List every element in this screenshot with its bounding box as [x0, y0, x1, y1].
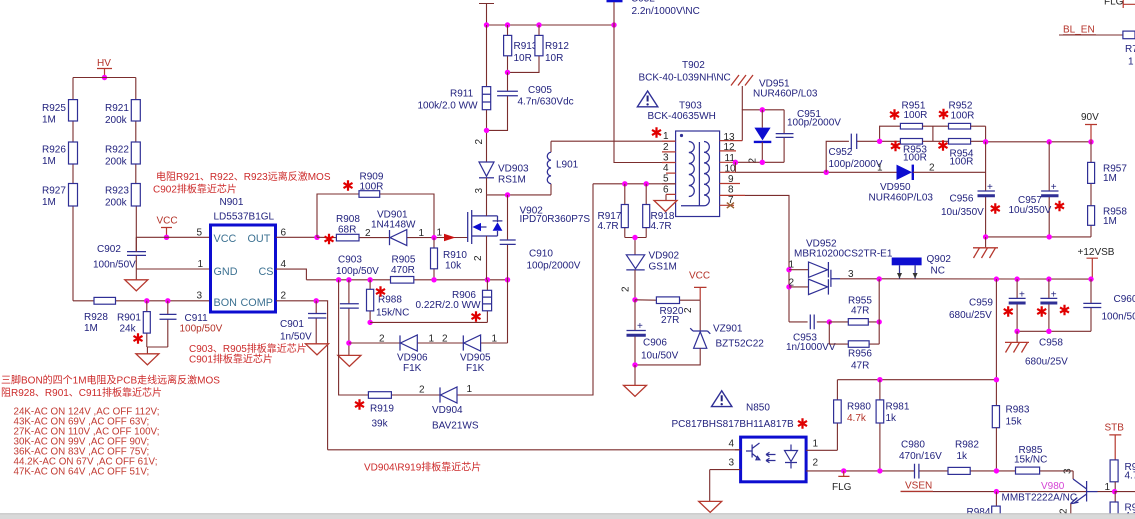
power port 90V — [1081, 112, 1099, 142]
capacitor C957 — [1009, 142, 1059, 237]
svg-text:5: 5 — [197, 228, 203, 239]
resistor R919 — [368, 392, 394, 430]
svg-text:FLG: FLG — [832, 482, 852, 493]
wire OUT pin6 — [276, 236, 317, 238]
svg-text:1M: 1M — [42, 115, 56, 126]
IC N901 LD5537B1GL — [197, 197, 287, 312]
resistor R912 — [508, 25, 570, 72]
diode VD904 — [419, 384, 479, 432]
node BON/R901 — [144, 298, 149, 303]
resistor R988 — [367, 280, 410, 323]
node rail R912 — [536, 22, 541, 27]
node R913/R912 join — [505, 70, 510, 75]
node out R955 — [877, 276, 882, 281]
diode VD952a — [789, 260, 829, 278]
wire divider right stub — [1115, 491, 1135, 493]
resistor R923 — [105, 184, 140, 209]
svg-text:100p/2000V: 100p/2000V — [829, 159, 883, 170]
svg-text:R905: R905 — [392, 255, 416, 266]
svg-text:200k: 200k — [105, 157, 128, 168]
node rail R911 — [484, 22, 489, 27]
node R911/C905 join — [484, 128, 489, 133]
capacitor C959 — [949, 279, 1026, 331]
R951/R953 left junction — [877, 126, 901, 144]
node R955/R956 right — [877, 319, 882, 324]
star R988 — [376, 286, 385, 296]
svg-text:FLG: FLG — [1104, 0, 1124, 8]
node BON/C911 — [165, 298, 170, 303]
svg-text:+: + — [1051, 290, 1057, 301]
star N850 — [798, 418, 807, 428]
svg-text:10k: 10k — [445, 261, 462, 272]
wire R901/C911 join — [147, 347, 168, 354]
svg-text:68R: 68R — [338, 225, 356, 236]
transformer left pin stubs — [662, 141, 676, 194]
svg-text:2: 2 — [683, 307, 694, 313]
svg-text:GND: GND — [214, 266, 238, 278]
svg-text:100n/50: 100n/50 — [1102, 312, 1135, 323]
node out C960 — [1088, 276, 1093, 281]
svg-text:OUT: OUT — [248, 233, 271, 245]
mosfet V902 — [468, 195, 591, 280]
wire drain junction — [487, 194, 552, 196]
node C958 bottom — [1046, 329, 1051, 334]
svg-text:1: 1 — [419, 228, 425, 239]
svg-text:T902: T902 — [682, 60, 705, 71]
wire +12V drop x996 — [995, 279, 997, 406]
svg-text:100R: 100R — [360, 182, 384, 193]
svg-text:100p/2000V: 100p/2000V — [787, 118, 841, 129]
node pin2row x996 — [994, 468, 999, 473]
svg-text:C910: C910 — [529, 249, 553, 260]
capacitor C960 — [1083, 279, 1135, 331]
svg-text:C956: C956 — [950, 194, 974, 205]
wire C906 ground stem — [634, 365, 636, 386]
capacitor C962 top cut — [607, 0, 700, 25]
svg-text:100R: 100R — [903, 153, 927, 164]
node STB divider — [1112, 489, 1117, 494]
resistor R901 — [117, 301, 150, 347]
wire C902 stem — [135, 237, 137, 279]
capacitor C956 — [941, 142, 995, 237]
svg-text:200k: 200k — [105, 115, 128, 126]
svg-text:100R: 100R — [951, 111, 975, 122]
no-connect X pin7 — [727, 203, 734, 209]
svg-text:BCK-40-L039NH\NC: BCK-40-L039NH\NC — [639, 73, 731, 84]
svg-text:COMP: COMP — [241, 297, 273, 309]
svg-text:1: 1 — [1105, 482, 1111, 493]
resistor R953 — [900, 139, 927, 164]
svg-text:BL_EN: BL_EN — [1063, 25, 1095, 36]
svg-text:1n/1000VV: 1n/1000VV — [786, 342, 836, 353]
optocoupler N850 — [741, 437, 807, 482]
node C906 bottom — [632, 362, 637, 367]
wire R908 row — [317, 236, 468, 238]
port STB — [1105, 423, 1125, 460]
wire pin5 row — [593, 183, 676, 185]
svg-text:C902排板靠近芯片: C902排板靠近芯片 — [153, 183, 237, 196]
svg-text:Q902: Q902 — [927, 254, 952, 265]
svg-text:4.7R: 4.7R — [651, 221, 672, 232]
earth above pin13 — [731, 75, 753, 110]
diode VD903 — [479, 162, 529, 195]
svg-text:3: 3 — [663, 152, 669, 163]
svg-text:100n/50V: 100n/50V — [93, 260, 136, 271]
svg-text:10R: 10R — [514, 53, 532, 64]
svg-text:BCK-40635WH: BCK-40635WH — [648, 111, 716, 122]
diode VD901 — [365, 210, 425, 246]
svg-text:10: 10 — [725, 164, 737, 175]
node VD951 bottom — [760, 160, 765, 165]
node rail R910 — [431, 277, 436, 282]
svg-text:1: 1 — [1128, 57, 1134, 68]
svg-text:BAV21WS: BAV21WS — [432, 421, 479, 432]
power port +12VSB — [1078, 247, 1115, 279]
svg-text:5: 5 — [663, 174, 669, 185]
svg-text:STB: STB — [1105, 423, 1125, 434]
svg-text:MBR10200CS2TR-E1: MBR10200CS2TR-E1 — [794, 249, 893, 260]
svg-text:GS1M: GS1M — [649, 262, 677, 273]
svg-text:1: 1 — [789, 260, 795, 271]
svg-text:2: 2 — [281, 291, 287, 302]
svg-text:200k: 200k — [105, 198, 128, 209]
wire pin13 riser — [742, 110, 784, 141]
svg-text:N850: N850 — [746, 403, 770, 414]
ground under C906 — [624, 385, 647, 396]
capacitor C902 — [93, 244, 146, 271]
node R981 bottom — [877, 468, 882, 473]
svg-text:1: 1 — [663, 131, 669, 142]
svg-text:R912: R912 — [545, 41, 569, 52]
svg-text:VD950: VD950 — [880, 182, 911, 193]
svg-text:1M: 1M — [84, 323, 98, 334]
svg-text:C905: C905 — [528, 85, 552, 96]
net label BL_EN — [1059, 25, 1123, 36]
svg-text:R919: R919 — [370, 404, 394, 415]
svg-text:6: 6 — [663, 184, 669, 195]
svg-text:1: 1 — [492, 334, 498, 345]
diode VD905 — [442, 334, 498, 375]
svg-text:2: 2 — [473, 255, 484, 261]
svg-text:BZT52C22: BZT52C22 — [716, 339, 765, 350]
svg-text:VD904: VD904 — [432, 405, 463, 416]
svg-text:R926: R926 — [42, 145, 66, 156]
svg-text:1: 1 — [437, 228, 443, 239]
svg-text:R983: R983 — [1006, 405, 1030, 416]
svg-text:90V: 90V — [1081, 112, 1099, 123]
wire caps bottom rail — [1017, 330, 1091, 332]
node pin11/pin10 link — [733, 160, 738, 165]
right pin numbers — [724, 132, 737, 206]
resistor R911 wirewound — [418, 25, 491, 162]
wire opto pin3 — [710, 470, 741, 502]
wire 90V bottom rail — [986, 236, 1091, 238]
wire CS rail — [306, 279, 507, 281]
resistor R926 — [42, 142, 78, 167]
resistor R918 — [643, 184, 675, 238]
svg-text:+: + — [987, 182, 993, 193]
wire VD906 row — [349, 280, 508, 343]
wire pin8 to VD952 — [745, 195, 789, 322]
node R918 top — [644, 181, 649, 186]
svg-text:+: + — [1051, 182, 1057, 193]
svg-text:VD902: VD902 — [649, 251, 680, 262]
resistor R913 — [504, 25, 538, 72]
resistor R7xx edge — [1123, 31, 1135, 67]
resistor R951 — [900, 101, 927, 130]
svg-text:1: 1 — [429, 334, 435, 345]
svg-text:1N4148W: 1N4148W — [371, 220, 416, 231]
node VSEN x996 — [994, 489, 999, 494]
resistor R925 — [42, 100, 78, 126]
node COMP — [314, 298, 319, 303]
port arrow 1 — [437, 228, 456, 242]
svg-text:VD906: VD906 — [397, 353, 428, 364]
svg-text:47R: 47R — [851, 306, 869, 317]
bottom window bar — [0, 514, 1135, 519]
svg-text:C906: C906 — [643, 338, 667, 349]
star R909 — [344, 180, 353, 190]
star R901 — [134, 333, 143, 343]
svg-text:1: 1 — [198, 259, 204, 270]
svg-text:39k: 39k — [372, 419, 389, 430]
zener VZ901 — [636, 300, 764, 365]
star R952 — [939, 109, 948, 119]
diode VD902 — [626, 251, 679, 300]
node VD902/R920/C906 — [632, 297, 637, 302]
star C957 — [1055, 201, 1064, 211]
node out x996 — [994, 276, 999, 281]
svg-text:2: 2 — [419, 385, 425, 396]
svg-text:1M: 1M — [42, 156, 56, 167]
left pin numbers — [663, 131, 669, 195]
node rail C903 — [346, 277, 351, 282]
svg-text:VCC: VCC — [157, 216, 178, 227]
svg-text:NUR460P/L03: NUR460P/L03 — [869, 193, 934, 204]
node rail C962 — [611, 22, 616, 27]
star C958 right — [1060, 305, 1069, 315]
svg-text:C952: C952 — [631, 0, 655, 5]
svg-text:R910: R910 — [443, 250, 467, 261]
node out C958 — [1046, 276, 1051, 281]
svg-text:R901: R901 — [117, 313, 141, 324]
resistor R958 — [1088, 206, 1128, 237]
star R919 — [355, 399, 364, 409]
svg-text:47K-AC ON 64V ,AC OFF 51V;: 47K-AC ON 64V ,AC OFF 51V; — [14, 466, 150, 477]
resistor R985 — [1014, 445, 1047, 474]
svg-text:C901: C901 — [280, 319, 304, 330]
node C959 bottom — [1014, 329, 1019, 334]
power port VCC (N901) — [157, 216, 178, 238]
svg-text:680u/25V: 680u/25V — [1025, 357, 1068, 368]
svg-text:VD903: VD903 — [498, 164, 529, 175]
wire middle junction — [923, 126, 949, 141]
svg-text:4.7R: 4.7R — [598, 221, 619, 232]
node rail R957 — [1088, 139, 1093, 144]
resistor R986 — [1110, 460, 1135, 492]
star C959 — [1004, 306, 1013, 316]
svg-text:C903: C903 — [338, 255, 362, 266]
wire right junction to 90V rail — [971, 126, 986, 142]
node C952 tap — [824, 170, 829, 175]
wire L901 top to pin1 — [551, 140, 676, 142]
svg-text:4: 4 — [281, 259, 287, 270]
resistor R906 wirewound — [416, 280, 492, 323]
resistor R957 — [1088, 142, 1128, 206]
svg-text:2.2n/1000V\NC: 2.2n/1000V\NC — [632, 6, 700, 17]
wire HV top rail — [73, 77, 136, 79]
node rail R906 — [485, 277, 490, 282]
capacitor C905 — [487, 72, 574, 130]
svg-text:+: + — [1019, 290, 1025, 301]
resistor R922 — [105, 142, 140, 168]
svg-text:10u/350V: 10u/350V — [941, 207, 984, 218]
net label VSEN — [901, 481, 933, 492]
svg-text:2: 2 — [663, 142, 669, 153]
power port VCC (aux) — [689, 271, 710, 301]
resistor R910 — [431, 238, 468, 280]
svg-text:100k/2.0 WW: 100k/2.0 WW — [418, 101, 479, 112]
star C956 — [991, 203, 1000, 213]
svg-text:NC: NC — [931, 266, 945, 277]
svg-text:CS: CS — [259, 266, 274, 278]
resistor R983 — [992, 405, 1030, 471]
wire R988/R906 bottom — [370, 321, 487, 323]
wire CS pin4 — [276, 269, 306, 280]
wire left column — [72, 78, 74, 301]
svg-text:3: 3 — [729, 458, 735, 469]
svg-text:VSEN: VSEN — [905, 481, 932, 492]
earth under C956 — [973, 237, 998, 258]
wire feedback bottom run — [328, 449, 741, 451]
node rail C956 — [983, 139, 988, 144]
star R953 — [891, 141, 900, 151]
svg-text:阻R928、R901、C911排板靠近芯片: 阻R928、R901、C911排板靠近芯片 — [1, 386, 162, 399]
svg-text:IPD70R360P7S: IPD70R360P7S — [520, 214, 591, 225]
node bottom C956 — [983, 234, 988, 239]
svg-text:BON: BON — [214, 297, 237, 309]
node rail source — [505, 277, 510, 282]
diode VD951 — [753, 79, 818, 163]
svg-text:2: 2 — [442, 334, 448, 345]
star R954 — [939, 140, 948, 150]
svg-text:VD905: VD905 — [460, 353, 491, 364]
node rail R913 — [505, 22, 510, 27]
node rail C957 — [1047, 139, 1052, 144]
svg-text:C952: C952 — [829, 147, 853, 158]
wire R917/R918 join — [625, 238, 646, 255]
resistor R921 — [105, 100, 140, 126]
node VD952 anode2 — [786, 284, 791, 289]
svg-text:100R: 100R — [950, 157, 974, 168]
wire opto pin4 — [735, 449, 741, 451]
capacitor C910 — [500, 195, 581, 280]
svg-text:3: 3 — [848, 269, 854, 280]
capacitor C951 — [776, 109, 842, 162]
capacitor C953 — [786, 315, 836, 354]
resistor R982 — [948, 440, 979, 475]
svg-text:VCC: VCC — [214, 233, 237, 245]
svg-text:2: 2 — [929, 163, 935, 174]
svg-text:R911: R911 — [450, 89, 474, 100]
wire top stub — [479, 4, 494, 26]
resistor R928 — [84, 297, 116, 334]
node R917 top — [622, 181, 627, 186]
svg-text:R956: R956 — [848, 349, 872, 360]
svg-text:VZ901: VZ901 — [713, 324, 743, 335]
diode VD952b — [789, 278, 829, 295]
svg-text:R980: R980 — [847, 402, 871, 413]
svg-text:4: 4 — [729, 439, 735, 450]
svg-text:N901: N901 — [220, 197, 244, 208]
wire COMP pin2 — [276, 301, 328, 450]
svg-text:R908: R908 — [336, 214, 360, 225]
svg-text:4.7k: 4.7k — [847, 413, 867, 424]
node rail R988 — [367, 277, 372, 282]
star R951 — [890, 109, 899, 119]
wire pin11-pin10 vertical — [734, 162, 736, 172]
node HV junction — [102, 75, 107, 80]
svg-text:2: 2 — [621, 286, 632, 292]
node VCC/pin5 — [164, 235, 169, 240]
dual transistor Q902 NC — [892, 254, 952, 279]
svg-text:R7: R7 — [1125, 44, 1135, 55]
power port HV — [97, 58, 112, 78]
star R906 — [472, 311, 481, 321]
resistor R987 — [1110, 492, 1135, 519]
svg-text:+12VSB: +12VSB — [1078, 247, 1115, 258]
svg-text:VCC: VCC — [689, 271, 710, 282]
resistor R956 — [829, 279, 879, 371]
svg-text:2: 2 — [789, 278, 795, 289]
wire pin6 to ground — [665, 194, 667, 200]
svg-text:三脚BON的四个1M电阻及PCB走线远离反激MOS: 三脚BON的四个1M电阻及PCB走线远离反激MOS — [1, 374, 220, 387]
svg-text:R925: R925 — [42, 103, 66, 114]
transformer body — [676, 131, 720, 217]
svg-text:C960: C960 — [1114, 294, 1135, 305]
capacitor C958 — [1025, 279, 1068, 367]
svg-text:15k: 15k — [1006, 417, 1023, 428]
node rail x996 — [994, 377, 999, 382]
wire opto pin2 row — [806, 470, 1073, 472]
svg-text:T903: T903 — [679, 101, 702, 112]
svg-text:C958: C958 — [1039, 338, 1063, 349]
node bottom C957 — [1047, 234, 1052, 239]
ground under R901 — [136, 354, 159, 365]
svg-text:1: 1 — [877, 163, 883, 174]
svg-text:4: 4 — [663, 163, 669, 174]
svg-text:F1K: F1K — [403, 363, 422, 374]
svg-text:R982: R982 — [955, 440, 979, 451]
svg-text:47R: 47R — [851, 361, 869, 372]
node R917/R918 — [632, 235, 637, 240]
resistor R980 — [834, 380, 872, 451]
svg-text:10R: 10R — [545, 53, 563, 64]
wire R909 branch up — [317, 194, 434, 238]
wire C962 drop to pin3 — [614, 25, 676, 163]
resistor R905 — [391, 255, 416, 284]
node rail R981 — [877, 377, 882, 382]
svg-text:R928: R928 — [84, 312, 108, 323]
star R908 — [325, 234, 334, 244]
svg-text:0.22R/2.0 WW: 0.22R/2.0 WW — [416, 300, 482, 311]
svg-text:R921: R921 — [105, 103, 129, 114]
svg-text:C911: C911 — [185, 313, 209, 324]
svg-text:1: 1 — [813, 439, 819, 450]
svg-text:3: 3 — [197, 291, 203, 302]
svg-text:1M: 1M — [1103, 216, 1117, 227]
transistor V980 — [1002, 471, 1115, 514]
